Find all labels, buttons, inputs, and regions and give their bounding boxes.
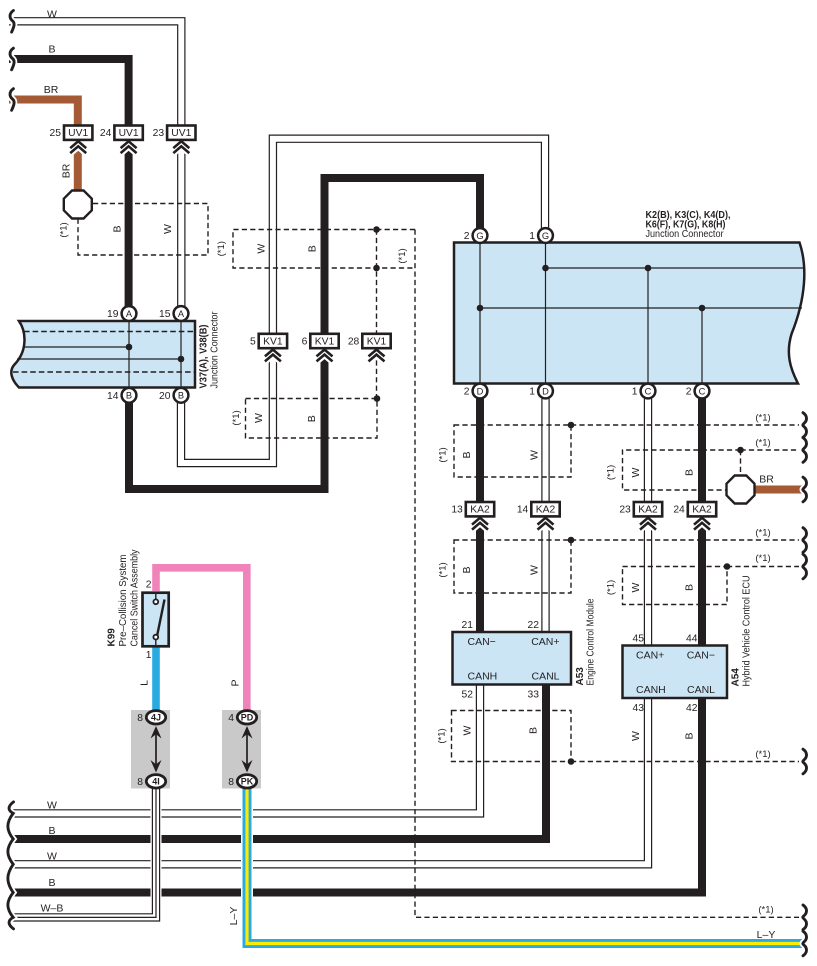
svg-text:Junction Connector: Junction Connector [210,311,221,389]
dashed option box below KV1 connectors [246,399,378,439]
svg-text:43: 43 [633,703,645,714]
svg-text:B: B [528,727,540,734]
svg-text:13: 13 [451,505,463,516]
svg-text:PK: PK [241,777,254,787]
svg-text:(*1): (*1) [438,562,449,577]
svg-text:8: 8 [137,713,143,724]
svg-text:B: B [48,877,55,889]
svg-text:4J: 4J [151,713,161,723]
svg-text:6: 6 [302,336,308,347]
svg-text:Engine Control Module: Engine Control Module [586,598,597,685]
svg-text:4: 4 [228,713,234,724]
switch K99 Pre-Collision System Cancel Switch Assembly [143,593,169,647]
right break at y=540 [803,528,807,553]
svg-text:B: B [684,469,696,476]
dashed option box below KA2 23/24 [623,567,728,605]
svg-text:(*1): (*1) [231,410,242,425]
svg-text:2: 2 [464,231,470,242]
svg-text:B: B [461,451,473,458]
svg-text:KV1: KV1 [263,337,283,348]
svg-text:B: B [178,391,184,401]
pin 1(C) of K junction [641,384,656,399]
node: dot at KA2 13/14 lower dashed box corner [568,537,575,544]
svg-text:20: 20 [159,391,171,402]
dashed wire of connector KV1 28 [376,230,378,349]
right break at y=761.5 [803,749,807,774]
connector arrows [471,518,488,525]
svg-text:(*1): (*1) [758,905,773,916]
junction connector V37(A), V38(B) [11,321,195,388]
svg-text:(*1): (*1) [216,241,227,256]
connector PK [237,775,256,788]
svg-text:44: 44 [686,634,698,645]
pin 15(A) of V37 [174,306,189,321]
right break at y=566.5 [803,554,807,579]
arrow link 4J-4I [155,728,157,771]
connector arrows [537,518,554,525]
shield octagon left [64,191,92,219]
connector PD [237,711,256,724]
connector arrows [120,141,137,148]
svg-text:G: G [476,231,483,241]
node: dot above right shield octagon [737,447,744,454]
svg-text:W: W [253,413,265,423]
pin 19(A) of V37 [122,306,137,321]
svg-text:5: 5 [250,336,256,347]
svg-text:Pre–Collision System: Pre–Collision System [118,555,129,647]
left break at y=59 [10,48,14,70]
wire W from K junction pin 1(D) through KA2 14 to A53 pin 22 [540,399,551,633]
V37 internal bus wire to pin 15/20 [17,358,181,360]
svg-text:BR: BR [44,84,59,96]
svg-text:(*1): (*1) [59,222,70,237]
svg-text:A: A [178,309,185,319]
wire W from left break to junction connector V37 pin 15 [9,21,181,306]
svg-text:C: C [699,386,706,396]
V37 internal bus wire to pin 19/14 [24,346,129,348]
svg-text:(*1): (*1) [606,580,617,595]
svg-text:UV1: UV1 [119,128,139,139]
svg-text:(*1): (*1) [755,413,770,424]
svg-text:1: 1 [529,387,535,398]
svg-text:(*1): (*1) [438,447,449,462]
svg-text:G: G [542,231,549,241]
dashed (*1) line to right break at y=566 [727,566,799,568]
svg-text:W: W [529,450,541,460]
pin 14(B) of V37 [122,388,137,403]
svg-text:B: B [112,225,124,232]
pin 1(D) of K junction [538,384,553,399]
wire W from V37 pin 20 through KV1 5 to K junction pin 1(G) [181,139,545,463]
svg-text:2: 2 [686,387,692,398]
svg-text:L: L [139,680,151,686]
node: dot at A53 lower dashed box corner [568,758,575,765]
svg-text:B: B [126,391,132,401]
svg-text:(*1): (*1) [437,728,448,743]
pin 2(D) of K junction [473,384,488,399]
svg-text:KV1: KV1 [367,337,387,348]
left break at y=99.5 [10,89,14,111]
svg-text:W–B: W–B [41,903,64,915]
svg-text:L–Y: L–Y [757,929,776,941]
svg-text:1: 1 [529,231,535,242]
svg-text:Hybrid Vehicle Control ECU: Hybrid Vehicle Control ECU [742,576,753,687]
dashed (*1) line to right break at y=761 [571,761,799,763]
wire W from A54 pin 43 to left break [12,699,648,864]
ECU A54 Hybrid Vehicle Control ECU [623,646,728,699]
connector 4I [146,775,165,788]
connector KA2 pin 24 [688,502,716,516]
connector 4J [146,711,165,724]
wire B from K junction pin 2(D) through KA2 13 to A53 pin 21 [475,399,486,633]
wire B from left break to junction connector V37 pin 19 [9,59,129,307]
wire B from K junction pin 2(C) through KA2 24 to A54 pin 44 [697,399,708,647]
connector KA2 pin 23 [634,502,662,516]
svg-text:B: B [684,732,696,739]
svg-text:W: W [630,731,642,741]
wire B from A53 pin 33 to left break [12,685,546,839]
K junction internal pin wire 2C [701,308,703,384]
node: dot at lower KV1 dashed box corner [374,395,381,402]
node: dot on KV1 28 dashed wire at box top [373,226,380,233]
V37 internal pin wire 19-14 [128,321,130,388]
wire W-B from connector 4I to left break [12,786,156,917]
svg-text:(*1): (*1) [397,248,408,263]
svg-text:W: W [162,224,174,234]
svg-text:W: W [529,565,541,575]
connector arrows [368,350,385,357]
ECU A53 Engine Control Module [453,632,572,685]
svg-text:15: 15 [159,309,171,320]
wire BR from right shield octagon to right break [754,484,802,495]
svg-text:CANL: CANL [687,684,715,696]
K junction internal pin wire 1G-1D [545,243,547,384]
svg-text:CAN−: CAN− [687,650,715,662]
svg-text:A53: A53 [575,667,586,686]
connector arrows [693,518,710,525]
right break at y=489.5 [803,477,807,502]
svg-text:B: B [684,584,696,591]
wire BR from left break to shield octagon [9,100,78,192]
svg-text:W: W [630,467,642,477]
svg-text:(*1): (*1) [606,465,617,480]
right break at y=917.3 [803,905,807,930]
svg-text:KA2: KA2 [470,505,490,516]
svg-text:(*1): (*1) [755,528,770,539]
svg-text:24: 24 [100,128,112,139]
svg-text:L–Y: L–Y [228,907,240,926]
svg-text:2: 2 [146,580,152,591]
svg-text:19: 19 [107,309,119,320]
svg-text:B: B [307,245,319,252]
svg-text:28: 28 [348,336,360,347]
svg-text:UV1: UV1 [171,128,191,139]
dashed (*1) line to right break at y=540 [571,539,799,541]
svg-text:CAN+: CAN+ [636,650,664,662]
junction connector K2(B), K3(C), K4(D), K6(F), K7(G), K8(H) [454,243,804,384]
dashed (*1) line to right break, from KA2 13/14 upper box [571,424,799,426]
connector arrows [264,350,281,357]
svg-text:UV1: UV1 [68,128,88,139]
svg-text:Cancel Switch Assembly: Cancel Switch Assembly [130,550,141,647]
node: V37 bus junction at pin 15 line [178,356,185,363]
K junction internal pin wire 2G-2D [479,243,481,384]
svg-text:CANH: CANH [636,684,666,696]
svg-text:(*1): (*1) [755,749,770,760]
left break at y=21.3 [10,11,14,33]
node: dot at KA2 13/14 upper dashed box corner [568,422,575,429]
svg-text:KA2: KA2 [536,505,556,516]
long dashed option line (*1) down right side to bottom [415,230,799,918]
wire L from K99 pin 1 to connector 4J [151,644,162,713]
wire W from K junction pin 1(C) through KA2 23 to A54 pin 45 [643,399,654,647]
svg-text:W: W [256,244,268,254]
arrow link PD-PK [246,728,248,771]
svg-text:CANL: CANL [531,671,559,683]
right break at y=450 [803,438,807,463]
K99 switch blade [157,600,164,636]
dashed (*1) line to right break, above right octagon [741,449,800,451]
svg-text:B: B [48,44,55,56]
node: dot on KV1 28 dashed wire at box bottom [373,265,380,272]
svg-text:33: 33 [528,690,540,701]
svg-text:8: 8 [228,777,234,788]
connector UV1 pin 25 [64,126,92,140]
pin 2(G) of K junction [473,228,488,243]
svg-text:D: D [477,386,484,396]
wire W from A53 pin 52 to left break [12,685,480,813]
wire L-Y from connector PK to right break [247,786,802,944]
svg-text:PD: PD [241,713,254,723]
dashed option box above KA2 13/14 [454,425,571,477]
svg-text:B: B [48,825,55,837]
svg-text:B: B [306,415,318,422]
svg-text:C: C [645,386,652,396]
wire P from K99 pin 2 to connector PD [156,568,247,713]
svg-text:A54: A54 [731,668,742,687]
svg-text:4I: 4I [152,777,160,787]
svg-text:D: D [542,386,549,396]
connector KA2 pin 14 [531,502,559,516]
svg-text:2: 2 [464,387,470,398]
svg-text:B: B [461,566,473,573]
svg-text:KV1: KV1 [315,337,335,348]
dashed option box below KA2 13/14 [454,540,571,593]
svg-text:21: 21 [462,620,474,631]
svg-text:24: 24 [673,505,685,516]
gray connector block 4J/4I [131,710,170,789]
svg-text:BR: BR [759,474,774,486]
connector arrows [316,350,333,357]
svg-text:W: W [630,582,642,592]
V37 internal pin wire 15-20 [180,321,182,388]
svg-text:25: 25 [50,128,62,139]
dashed option box above KV1 connectors [233,230,415,269]
wire B from V37 pin 14 through KV1 6 to K junction pin 2(G) [129,178,480,489]
svg-text:W: W [47,800,57,812]
svg-text:A: A [126,309,133,319]
svg-text:CANH: CANH [468,671,498,683]
svg-text:BR: BR [61,163,73,178]
svg-text:V37(A), V38(B): V37(A), V38(B) [199,325,210,389]
svg-text:1: 1 [146,650,152,661]
svg-text:8: 8 [137,777,143,788]
connector arrows [173,141,190,148]
svg-text:14: 14 [517,505,529,516]
K junction internal bus wire lower (2G-2C) [480,307,802,309]
node: K junction upper bus at 1G [542,265,549,272]
K junction internal pin wire 1C [647,268,649,384]
right break at y=943.5 [803,931,807,956]
svg-text:(*1): (*1) [755,438,770,449]
shield octagon right [727,476,755,504]
svg-text:P: P [230,679,242,686]
gray connector block PD/PK [222,710,261,789]
node: V37 bus junction at pin 19 line [126,344,133,351]
svg-text:KA2: KA2 [692,505,712,516]
svg-text:W: W [47,9,57,21]
svg-text:45: 45 [633,634,645,645]
svg-text:52: 52 [462,690,474,701]
svg-text:1: 1 [632,387,638,398]
svg-text:14: 14 [107,391,119,402]
dashed option box above KA2 23/24 [623,450,741,490]
pin 1(G) of K junction [538,228,553,243]
node: K junction lower bus at 2C [699,305,706,312]
K junction internal bus wire upper (1G-1C) [546,267,805,269]
dashed option box at shield octagon (*1) top-left [78,204,208,256]
connector KA2 pin 13 [466,502,494,516]
svg-text:KA2: KA2 [638,505,658,516]
pin 2(C) of K junction [695,384,710,399]
node: K junction upper bus at 1C [645,265,652,272]
connector KV1 pin 6 [310,334,338,348]
connector KV1 pin 28 [362,334,390,348]
dashed option box below A53 [452,711,572,762]
left break chain W/B/W/B/W-B [8,802,14,929]
svg-text:CAN−: CAN− [468,636,496,648]
svg-text:22: 22 [528,620,540,631]
connector arrows [639,518,656,525]
pin 20(B) of V37 [174,388,189,403]
svg-text:W: W [47,851,57,863]
svg-text:23: 23 [619,505,631,516]
node: K junction lower bus at 2G-2D [477,305,484,312]
node: dot at KA2 23/24 lower dashed box corner [724,563,731,570]
svg-text:CAN+: CAN+ [531,636,559,648]
right break at y=425 [803,413,807,438]
connector arrows [70,141,87,148]
svg-text:(*1): (*1) [755,553,770,564]
svg-text:K99: K99 [107,628,118,647]
connector UV1 pin 24 [114,126,142,140]
svg-text:23: 23 [153,128,165,139]
svg-text:Junction Connector: Junction Connector [646,229,725,240]
connector KV1 pin 5 [259,334,287,348]
wire B from A54 pin 42 to left break [12,699,702,893]
svg-text:W: W [462,725,474,735]
connector UV1 pin 23 [167,126,195,140]
svg-text:42: 42 [686,703,698,714]
